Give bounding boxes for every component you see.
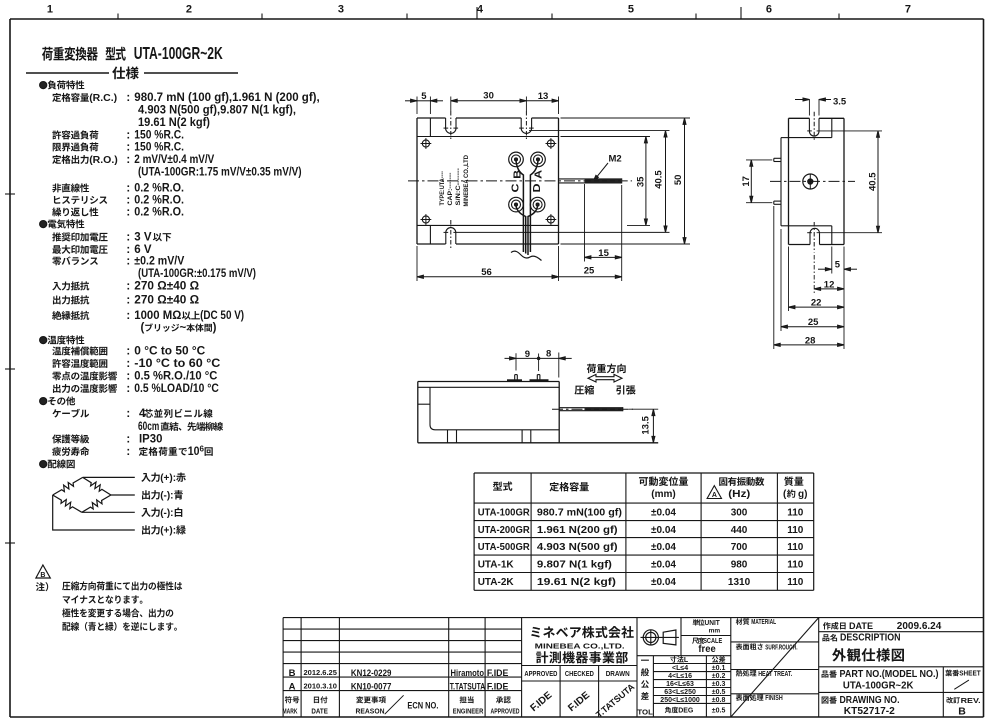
- dimension 15 thread length: [584, 184, 586, 262]
- svg-text:PART NO.(MODEL NO.): PART NO.(MODEL NO.): [840, 669, 939, 680]
- svg-text:(R.O.): (R.O.): [89, 154, 118, 166]
- strain gauge resistor R3 lower-left: [53, 495, 82, 512]
- svg-text:12: 12: [824, 280, 835, 291]
- svg-text::: :: [126, 346, 130, 358]
- svg-text:25: 25: [808, 317, 819, 328]
- svg-text:±0.04: ±0.04: [651, 577, 676, 588]
- wire output- blue from right node: [111, 494, 135, 496]
- material/surface/heat/finish cells with diagonal: [736, 618, 743, 625]
- revision note triangle B and note text: [36, 565, 50, 578]
- svg-text:980: 980: [731, 559, 748, 570]
- svg-text:5: 5: [421, 91, 427, 102]
- svg-text:4: 4: [477, 4, 484, 16]
- svg-text:FINISH: FINISH: [765, 693, 783, 702]
- svg-text:(mm): (mm): [651, 489, 675, 500]
- svg-text:M2: M2: [609, 154, 622, 165]
- svg-text:7: 7: [905, 4, 911, 16]
- svg-text:<L≤4: <L≤4: [672, 665, 688, 672]
- svg-text::: :: [126, 358, 130, 370]
- svg-text:(UTA-100GR:±0.175 mV/V): (UTA-100GR:±0.175 mV/V): [138, 268, 256, 280]
- svg-text:B: B: [958, 706, 966, 718]
- svg-text:DESCRIPTION: DESCRIPTION: [840, 633, 901, 644]
- side view body outline: [789, 117, 810, 119]
- dimensions 9 and 8 front view: [515, 353, 517, 370]
- top view corner screws: [422, 140, 429, 147]
- svg-text:150 %R.C.: 150 %R.C.: [134, 130, 184, 142]
- strain gauge resistor R1 upper-left: [53, 477, 83, 495]
- top view step lines: [417, 136, 559, 138]
- front view body outline: [418, 381, 559, 383]
- svg-text:SURF.ROUGH.: SURF.ROUGH.: [765, 642, 797, 651]
- svg-text::: :: [126, 183, 130, 195]
- svg-text:110: 110: [787, 507, 804, 518]
- svg-text:-10 °C to 60 °C: -10 °C to 60 °C: [134, 358, 220, 370]
- section header 仕様 with rules: [26, 72, 109, 74]
- svg-text:A: A: [712, 492, 717, 499]
- svg-text:C: C: [511, 184, 522, 193]
- svg-text:CAP:-------: CAP:-------: [447, 173, 454, 206]
- svg-text::: :: [126, 281, 130, 293]
- svg-text:3.5: 3.5: [833, 97, 847, 108]
- svg-text:440: 440: [731, 525, 748, 536]
- svg-text:700: 700: [731, 542, 748, 553]
- svg-text::: :: [126, 408, 130, 420]
- svg-text:2 mV/V±0.4 mV/V: 2 mV/V±0.4 mV/V: [134, 154, 214, 166]
- top view cable grommets A B C D: [509, 152, 524, 167]
- top view marking text TYPE/CAP/SN/MINEBEA: [439, 171, 446, 206]
- svg-text:980.7 mN(100 gf): 980.7 mN(100 gf): [537, 507, 622, 518]
- svg-text:1310: 1310: [728, 577, 751, 588]
- dimension 35 top view: [561, 136, 651, 138]
- svg-text:S/N:C-------: S/N:C-------: [455, 168, 462, 206]
- svg-text:56: 56: [481, 267, 492, 278]
- svg-text:Hiramoto: Hiramoto: [451, 668, 485, 679]
- svg-text:1: 1: [47, 4, 53, 16]
- svg-text:KN12-0229: KN12-0229: [351, 668, 392, 679]
- svg-text:L: L: [684, 657, 689, 664]
- svg-text:40.5: 40.5: [868, 172, 879, 191]
- svg-text:8: 8: [546, 349, 551, 360]
- svg-text:2012.6.25: 2012.6.25: [304, 668, 337, 677]
- dimension 40.5 side view: [817, 130, 882, 132]
- svg-text:HEAT TREAT.: HEAT TREAT.: [758, 669, 792, 678]
- svg-text:300: 300: [731, 507, 748, 518]
- svg-text:(: (: [141, 322, 145, 334]
- top view M2 threaded rod: [559, 178, 622, 180]
- svg-text:ENGINEER: ENGINEER: [453, 709, 484, 716]
- svg-text:APPROVED: APPROVED: [491, 709, 520, 716]
- svg-text::: :: [126, 207, 130, 219]
- svg-text:13: 13: [538, 91, 549, 102]
- svg-text:mm: mm: [709, 628, 721, 635]
- svg-text:(DC 50 V): (DC 50 V): [200, 310, 244, 322]
- unit and scale cells: [693, 619, 699, 625]
- svg-text::: :: [126, 434, 130, 446]
- dimension 17 side view pins: [746, 159, 772, 161]
- dimension 40.5 top view: [529, 130, 670, 132]
- svg-text:2009.6.24: 2009.6.24: [897, 621, 942, 632]
- svg-text:±0.3: ±0.3: [712, 681, 726, 688]
- svg-text:TOL: TOL: [637, 708, 653, 717]
- svg-text:10: 10: [188, 446, 200, 458]
- svg-text::: :: [126, 130, 130, 142]
- strain gauge resistor R4 lower-right: [82, 495, 111, 512]
- svg-text:150 %R.C.: 150 %R.C.: [134, 142, 184, 154]
- svg-text:T.TATSUTA: T.TATSUTA: [450, 681, 485, 692]
- svg-text:0 °C to 50 °C: 0 °C to 50 °C: [134, 346, 205, 358]
- load direction labels 荷重方向 圧縮 引張 with double arrow: [587, 364, 596, 373]
- title 荷重変換器 型式 UTA-100GR~2K: [42, 47, 53, 61]
- svg-text:(+):: (+):: [160, 473, 176, 484]
- revision table header MARK DATE REASON ECN ENGINEER APPROVED: [285, 696, 292, 703]
- svg-text:17: 17: [741, 176, 752, 187]
- svg-text:50: 50: [673, 175, 684, 186]
- svg-text:30: 30: [483, 91, 494, 102]
- svg-text:2010.3.10: 2010.3.10: [304, 682, 337, 691]
- svg-text:6: 6: [200, 445, 205, 454]
- svg-text:0.5 %R.O./10 °C: 0.5 %R.O./10 °C: [134, 371, 217, 383]
- svg-text:6: 6: [766, 4, 772, 16]
- svg-text:SHEET: SHEET: [959, 669, 981, 678]
- svg-text:0.2 %R.O.: 0.2 %R.O.: [134, 195, 184, 207]
- svg-text::: :: [126, 232, 130, 244]
- svg-text:UTA-100GR: UTA-100GR: [478, 507, 531, 518]
- side view top slot: [808, 118, 810, 131]
- svg-text:16<L≤63: 16<L≤63: [666, 681, 694, 688]
- svg-text:63<L≤250: 63<L≤250: [664, 689, 696, 696]
- specification list 負荷特性/電気特性/温度特性/その他: [40, 82, 47, 89]
- top view cable wires bundle: [516, 161, 523, 252]
- bridge wire labels: [141, 473, 150, 482]
- svg-text:25: 25: [584, 265, 595, 276]
- svg-text:ECN NO.: ECN NO.: [407, 700, 438, 711]
- svg-text:APPROVED: APPROVED: [524, 669, 557, 678]
- dimensions 56 and 25 bottom of top view: [416, 246, 418, 281]
- svg-text:2: 2: [186, 4, 192, 16]
- svg-text:F.IDE: F.IDE: [487, 668, 509, 679]
- svg-text:40.5: 40.5: [654, 170, 665, 189]
- svg-text:DRAWN: DRAWN: [606, 669, 630, 678]
- svg-text:UNIT: UNIT: [705, 618, 721, 627]
- svg-text:MATERIAL: MATERIAL: [751, 617, 776, 626]
- svg-text:110: 110: [787, 577, 804, 588]
- svg-text:110: 110: [787, 525, 804, 536]
- third angle projection symbol: [643, 630, 658, 645]
- svg-text:DATE: DATE: [849, 621, 873, 631]
- svg-text:0.2 %R.O.: 0.2 %R.O.: [134, 207, 184, 219]
- svg-text:250<L≤1000: 250<L≤1000: [660, 697, 700, 704]
- svg-text:±0.1: ±0.1: [712, 665, 726, 672]
- svg-text:A: A: [289, 681, 296, 692]
- top view bottom slot: [445, 233, 447, 244]
- svg-text:4.903 N(500 gf): 4.903 N(500 gf): [537, 542, 618, 553]
- side view left cap block: [780, 138, 782, 226]
- svg-text:): ): [213, 322, 217, 334]
- svg-text::: :: [126, 371, 130, 383]
- svg-text:6 V: 6 V: [134, 244, 152, 256]
- drawing info DATE DESCRIPTION PART NO DRAWING NO REV: [823, 622, 831, 629]
- svg-text:±0.2: ±0.2: [712, 673, 726, 680]
- wire input+ red from top node: [83, 476, 135, 478]
- svg-text:110: 110: [787, 559, 804, 570]
- svg-text:(+):: (+):: [160, 526, 176, 537]
- svg-text:19.61 N(2 kgf): 19.61 N(2 kgf): [138, 117, 210, 129]
- front view M2 threaded rod: [559, 407, 623, 409]
- svg-text:3: 3: [338, 4, 344, 16]
- svg-text:9: 9: [525, 349, 530, 360]
- svg-text:UTA-200GR: UTA-200GR: [478, 525, 531, 536]
- svg-text::: :: [126, 92, 130, 104]
- title block grid lines: [282, 618, 284, 717]
- zone ruler ticks left edge: [5, 193, 15, 195]
- svg-text:±0.04: ±0.04: [651, 542, 676, 553]
- svg-text:(UTA-100GR:1.75 mV/V±0.35 mV/V: (UTA-100GR:1.75 mV/V±0.35 mV/V): [138, 167, 302, 179]
- svg-text:UTA-2K: UTA-2K: [478, 577, 515, 588]
- svg-text::: :: [126, 383, 130, 395]
- svg-text:9.807 N(1 kgf): 9.807 N(1 kgf): [537, 559, 612, 570]
- side view center screw: [803, 174, 818, 189]
- svg-text:D: D: [532, 184, 543, 193]
- svg-text:270 Ω±40 Ω: 270 Ω±40 Ω: [134, 295, 199, 307]
- svg-text:60cm: 60cm: [138, 421, 159, 433]
- svg-text:5: 5: [835, 260, 841, 271]
- svg-text:MARK: MARK: [283, 709, 298, 716]
- svg-text::: :: [126, 142, 130, 154]
- svg-text:28: 28: [805, 335, 816, 346]
- svg-text:B: B: [40, 572, 45, 579]
- svg-text:(-):: (-):: [160, 491, 173, 502]
- side view dimensions 5 12 22 25 28: [773, 206, 775, 349]
- top view body outline: [417, 117, 446, 119]
- svg-text:1.961 N(200 gf): 1.961 N(200 gf): [537, 525, 618, 536]
- svg-text:free: free: [698, 643, 715, 655]
- svg-text::: :: [126, 154, 130, 166]
- top view dimensions 5 30 13: [416, 97, 418, 115]
- svg-text:(Hz): (Hz): [728, 489, 750, 500]
- svg-text:±0.04: ±0.04: [651, 507, 676, 518]
- svg-text:1000 MΩ: 1000 MΩ: [134, 310, 181, 322]
- svg-text:~: ~: [180, 322, 187, 334]
- svg-text:DEG: DEG: [678, 708, 694, 715]
- svg-text:110: 110: [787, 542, 804, 553]
- svg-text:±0.04: ±0.04: [651, 525, 676, 536]
- dimension 3.5 side view slot: [808, 99, 810, 116]
- svg-text:TYPE:UTA----: TYPE:UTA----: [439, 171, 446, 206]
- front view top plate and pins: [507, 379, 522, 381]
- svg-text:(R.C.): (R.C.): [89, 92, 117, 104]
- svg-text:±0.2 mV/V: ±0.2 mV/V: [134, 256, 184, 268]
- svg-text:UTA-100GR~2K: UTA-100GR~2K: [134, 43, 223, 63]
- svg-text:CHECKED: CHECKED: [565, 669, 594, 678]
- dimension 13.5 front view: [629, 408, 658, 410]
- svg-text:UTA-100GR~2K: UTA-100GR~2K: [843, 679, 914, 691]
- svg-text:DATE: DATE: [311, 709, 328, 716]
- svg-text:270 Ω±40 Ω: 270 Ω±40 Ω: [134, 281, 199, 293]
- svg-text:g): g): [798, 489, 807, 500]
- svg-text:13.5: 13.5: [641, 415, 652, 434]
- svg-text::: :: [126, 295, 130, 307]
- svg-text:±0.8: ±0.8: [712, 697, 726, 704]
- svg-text:4<L≤16: 4<L≤16: [668, 673, 692, 680]
- svg-text:F.IDE: F.IDE: [487, 681, 509, 692]
- svg-text::: :: [126, 256, 130, 268]
- svg-text:980.7 mN (100 gf),1.961 N (200: 980.7 mN (100 gf),1.961 N (200 gf),: [134, 92, 319, 104]
- svg-text:5: 5: [628, 4, 634, 16]
- wire input- white from bottom node: [82, 511, 135, 513]
- svg-text:19.61 N(2 kgf): 19.61 N(2 kgf): [537, 577, 616, 588]
- svg-text::: :: [126, 446, 130, 458]
- dimension 50 right of top view: [561, 117, 691, 119]
- general tolerance table: [641, 660, 649, 661]
- wire output+ green from left node: [53, 495, 135, 530]
- svg-text:±0.5: ±0.5: [712, 708, 726, 715]
- svg-text:KT52717-2: KT52717-2: [844, 705, 895, 717]
- svg-text:4.903 N(500 gf),9.807 N(1 kgf): 4.903 N(500 gf),9.807 N(1 kgf),: [138, 105, 296, 117]
- svg-text:3 V: 3 V: [134, 232, 152, 244]
- svg-text:UTA-500GR: UTA-500GR: [478, 542, 531, 553]
- svg-text:0.5 %LOAD/10 °C: 0.5 %LOAD/10 °C: [134, 383, 219, 395]
- company name block MINEBEA: [531, 627, 540, 638]
- top view mounting slots with centerlines: [445, 118, 447, 128]
- svg-text:B: B: [289, 668, 296, 679]
- strain gauge resistor R2 upper-right: [83, 477, 111, 495]
- svg-text:UTA-1K: UTA-1K: [478, 559, 515, 570]
- svg-text:±0.5: ±0.5: [712, 689, 726, 696]
- grommet labels B A C D: [513, 170, 524, 179]
- svg-text::: :: [126, 310, 130, 322]
- svg-text:22: 22: [811, 298, 822, 309]
- svg-text::: :: [126, 244, 130, 256]
- svg-text:MINEBEA CO.,LTD.: MINEBEA CO.,LTD.: [535, 642, 625, 651]
- svg-text:0.2 %R.O.: 0.2 %R.O.: [134, 183, 184, 195]
- drawing frame border: [10, 18, 984, 20]
- svg-text::: :: [126, 195, 130, 207]
- side view bottom slot: [809, 233, 811, 244]
- svg-text:IP30: IP30: [139, 434, 162, 446]
- svg-text:35: 35: [635, 176, 646, 187]
- svg-text:REV.: REV.: [961, 696, 981, 705]
- zone ruler ticks top edge: [117, 14, 119, 20]
- specification table 型式/定格容量/可動変位量/固有振動数/質量: [474, 472, 814, 474]
- svg-text:15: 15: [598, 248, 609, 259]
- side view grommet pins: [774, 157, 781, 159]
- svg-text:REASON: REASON: [356, 709, 385, 716]
- svg-text:±0.04: ±0.04: [651, 559, 676, 570]
- svg-text:KN10-0077: KN10-0077: [351, 681, 392, 692]
- cable break squiggle: [511, 251, 542, 260]
- svg-text:(-):: (-):: [160, 508, 173, 519]
